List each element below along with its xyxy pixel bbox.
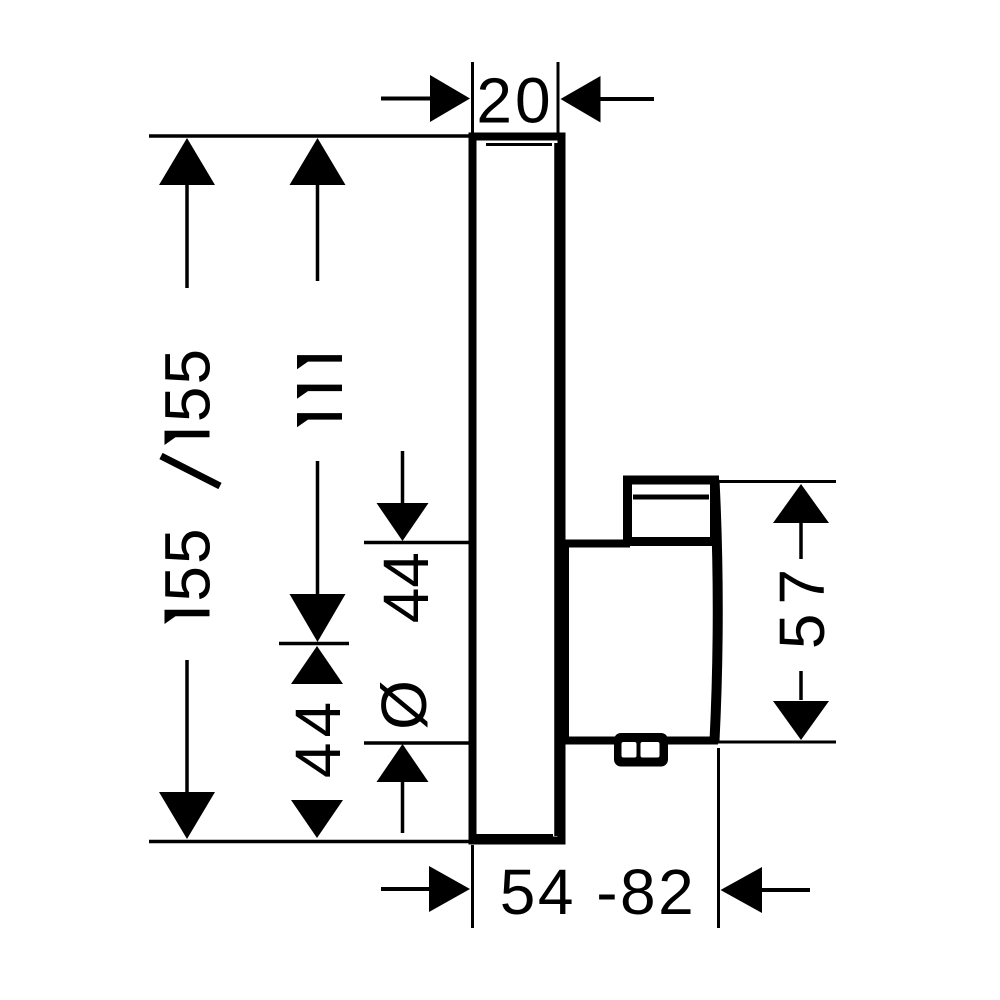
bottom edge extension line <box>149 840 469 844</box>
dim 20 left arrow <box>381 75 470 122</box>
valve body <box>561 480 718 744</box>
connector tab <box>614 733 668 767</box>
dim diameter 44 <box>364 451 469 833</box>
dim 57 <box>717 482 838 743</box>
svg-text:55: 55 <box>152 526 224 601</box>
svg-text:Ø: Ø <box>368 680 440 730</box>
dim 155/155 <box>152 138 224 839</box>
svg-text:20: 20 <box>476 65 553 137</box>
dim 20 right arrow <box>561 76 655 123</box>
dim 44 left <box>282 646 354 838</box>
dim 20 extension line right <box>557 62 560 133</box>
centerline tick <box>279 642 349 646</box>
top edge extension line <box>149 134 469 138</box>
svg-text:44: 44 <box>282 697 354 778</box>
handle cap <box>628 480 715 542</box>
svg-text:54 -82: 54 -82 <box>500 856 696 928</box>
cover plate <box>473 137 562 841</box>
svg-text:57: 57 <box>766 560 838 649</box>
svg-text:55: 55 <box>152 347 224 422</box>
dim 54-82 <box>381 748 810 928</box>
dim 111 <box>290 138 346 642</box>
svg-text:44: 44 <box>370 552 442 623</box>
dim 20 extension line left <box>471 62 474 133</box>
